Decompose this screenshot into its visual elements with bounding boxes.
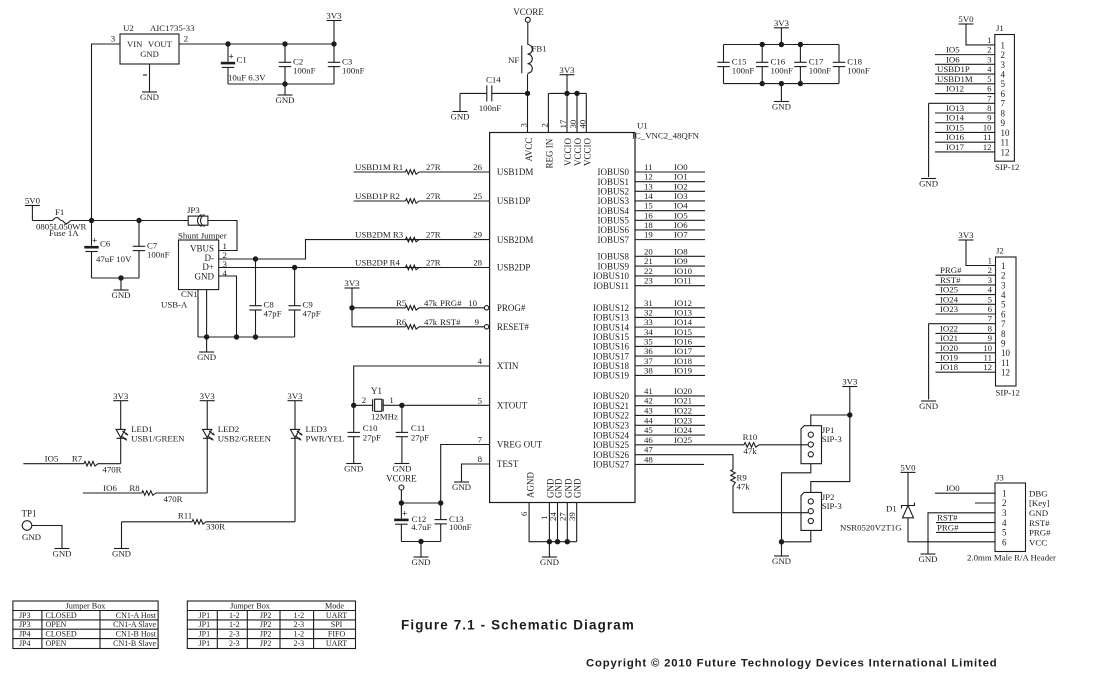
- node: [547, 539, 552, 544]
- svg-text:IOBUS22: IOBUS22: [593, 411, 629, 421]
- svg-text:100nF: 100nF: [479, 103, 502, 113]
- wire: [724, 83, 840, 85]
- wire J2 pin4: [936, 294, 996, 296]
- svg-text:IO4: IO4: [674, 201, 688, 211]
- svg-text:JP2: JP2: [260, 620, 272, 629]
- svg-text:IO20: IO20: [940, 343, 959, 353]
- USB connector CN1: [179, 240, 219, 290]
- svg-text:8: 8: [987, 103, 992, 113]
- wire VCCIO: [566, 93, 568, 132]
- resistor R8 470R / net IO6: [83, 492, 142, 494]
- svg-text:47k: 47k: [424, 298, 438, 308]
- svg-text:VCC: VCC: [1029, 537, 1047, 547]
- connector J3: [995, 483, 1026, 552]
- wire PRG#: [936, 531, 995, 533]
- svg-text:IOBUS8: IOBUS8: [597, 252, 629, 262]
- svg-text:SIP-3: SIP-3: [822, 434, 843, 444]
- svg-text:JP4: JP4: [19, 630, 31, 639]
- svg-text:45: 45: [644, 425, 653, 435]
- power 3V3: [288, 400, 303, 402]
- svg-text:IO19: IO19: [674, 365, 693, 375]
- svg-text:GND: GND: [197, 352, 216, 362]
- node: [351, 403, 356, 408]
- node: [253, 256, 258, 261]
- svg-text:GND: GND: [411, 557, 430, 567]
- svg-text:VOUT: VOUT: [148, 39, 173, 49]
- ground: [55, 548, 70, 550]
- svg-text:34: 34: [644, 327, 653, 337]
- svg-text:FB1: FB1: [532, 44, 547, 54]
- svg-text:OPEN: OPEN: [46, 620, 67, 629]
- svg-text:14: 14: [644, 191, 653, 201]
- wire J2 pin5: [936, 303, 996, 305]
- wire RST#: [936, 522, 995, 524]
- svg-text:6: 6: [1001, 309, 1006, 319]
- svg-text:JP2: JP2: [260, 639, 272, 648]
- svg-text:Copyright © 2010 Future Techno: Copyright © 2010 Future Technology Devic…: [586, 658, 998, 670]
- svg-text:PRG#: PRG#: [440, 298, 462, 308]
- wire: [219, 240, 490, 259]
- wire J2 pin2: [936, 274, 996, 276]
- voltage regulator U2 AIC1735-33: [120, 34, 179, 64]
- svg-text:19: 19: [644, 230, 653, 240]
- node: [418, 539, 423, 544]
- svg-text:2: 2: [1001, 50, 1006, 60]
- svg-text:JP4: JP4: [19, 639, 31, 648]
- capacitor C3: [333, 44, 335, 62]
- node: [525, 91, 530, 96]
- svg-text:2: 2: [362, 395, 366, 405]
- svg-text:USBD1M R1: USBD1M R1: [355, 162, 403, 172]
- wire VCCIO: [576, 93, 578, 132]
- svg-text:36: 36: [644, 346, 653, 356]
- svg-text:IO18: IO18: [674, 356, 693, 366]
- capacitor C9: [294, 268, 296, 306]
- svg-text:USB2DP R4: USB2DP R4: [355, 258, 400, 268]
- svg-text:IOBUS7: IOBUS7: [597, 235, 629, 245]
- wire J2 pin12: [936, 371, 996, 373]
- svg-text:IOBUS20: IOBUS20: [593, 391, 630, 401]
- capacitor C8: [255, 259, 257, 306]
- svg-text:R5: R5: [396, 298, 407, 308]
- svg-text:GND: GND: [140, 49, 159, 59]
- svg-text:RST#: RST#: [440, 317, 461, 327]
- svg-text:3V3: 3V3: [287, 391, 303, 401]
- wire: [782, 530, 811, 541]
- svg-text:5: 5: [987, 74, 992, 84]
- svg-text:IOBUS4: IOBUS4: [597, 206, 629, 216]
- resistor R10 47k: [744, 443, 759, 448]
- svg-text:10: 10: [1001, 348, 1011, 358]
- power 3V3: [774, 27, 789, 29]
- svg-text:27pF: 27pF: [411, 433, 429, 443]
- svg-text:11: 11: [984, 353, 992, 363]
- svg-text:AGND: AGND: [526, 472, 536, 498]
- svg-text:SIP-3: SIP-3: [822, 501, 843, 511]
- svg-text:27pF: 27pF: [363, 433, 381, 443]
- svg-text:12: 12: [983, 362, 992, 372]
- svg-text:USB2DP: USB2DP: [497, 263, 531, 273]
- svg-text:C1: C1: [237, 55, 247, 65]
- svg-text:3V3: 3V3: [842, 377, 858, 387]
- svg-text:IOBUS11: IOBUS11: [593, 281, 629, 291]
- svg-text:100nF: 100nF: [342, 66, 365, 76]
- svg-text:37: 37: [644, 356, 653, 366]
- svg-text:5: 5: [478, 395, 483, 405]
- svg-text:4: 4: [1001, 290, 1006, 300]
- svg-text:GND: GND: [140, 92, 159, 102]
- svg-text:IO12: IO12: [674, 298, 692, 308]
- svg-text:XTIN: XTIN: [497, 361, 519, 371]
- wire J2 pin10: [936, 352, 996, 354]
- svg-text:IOBUS14: IOBUS14: [593, 322, 630, 332]
- svg-text:100nF: 100nF: [847, 66, 870, 76]
- svg-text:44: 44: [644, 415, 653, 425]
- svg-text:IOBUS17: IOBUS17: [593, 351, 630, 361]
- svg-text:USB2DM: USB2DM: [497, 235, 534, 245]
- wire: [32, 526, 62, 549]
- svg-text:SIP-12: SIP-12: [995, 162, 1019, 172]
- svg-text:PRG#: PRG#: [937, 522, 959, 532]
- svg-text:7: 7: [1001, 319, 1006, 329]
- svg-text:PWR/YEL: PWR/YEL: [306, 434, 345, 444]
- svg-text:CN1-A Slave: CN1-A Slave: [113, 620, 156, 629]
- power 3V3: [560, 74, 575, 76]
- ground: [454, 481, 469, 483]
- capacitor C18 100nF: [838, 45, 840, 63]
- wire VREG OUT: [441, 445, 490, 504]
- svg-text:IO17: IO17: [674, 346, 693, 356]
- svg-text:NSR0520V2T1G: NSR0520V2T1G: [840, 523, 902, 533]
- svg-text:GND: GND: [344, 463, 363, 473]
- svg-text:R8: R8: [129, 483, 140, 493]
- svg-text:38: 38: [644, 365, 653, 375]
- svg-text:D1: D1: [886, 504, 897, 514]
- svg-text:5V0: 5V0: [958, 14, 974, 24]
- svg-text:RST#: RST#: [937, 513, 958, 523]
- wire J2 pin3: [936, 284, 996, 286]
- node: [779, 539, 784, 544]
- svg-text:CN1-A Host: CN1-A Host: [116, 611, 157, 620]
- svg-text:USBD1P R2: USBD1P R2: [355, 191, 400, 201]
- svg-text:IOBUS3: IOBUS3: [597, 196, 629, 206]
- svg-text:GND: GND: [392, 463, 411, 473]
- svg-text:NF: NF: [508, 55, 519, 65]
- svg-text:18: 18: [644, 220, 653, 230]
- svg-text:IO0: IO0: [946, 483, 960, 493]
- svg-text:IO16: IO16: [946, 132, 965, 142]
- wire: [206, 438, 208, 493]
- wire J1 pin3: [935, 63, 995, 65]
- capacitor C17 100nF: [799, 45, 801, 63]
- svg-text:USB1DM: USB1DM: [497, 167, 534, 177]
- svg-text:Shunt Jumper: Shunt Jumper: [178, 231, 227, 241]
- svg-text:3V3: 3V3: [958, 230, 974, 240]
- svg-text:25: 25: [473, 191, 482, 201]
- svg-text:9: 9: [1001, 339, 1006, 349]
- ground: [921, 400, 936, 402]
- svg-text:2.0mm Male R/A Header: 2.0mm Male R/A Header: [967, 553, 1056, 563]
- capacitor C14: [460, 92, 487, 94]
- wire: [928, 103, 930, 177]
- svg-text:LED3: LED3: [306, 424, 328, 434]
- svg-text:U1: U1: [637, 121, 648, 131]
- svg-text:RESET#: RESET#: [497, 322, 530, 332]
- svg-text:IO7: IO7: [674, 230, 688, 240]
- svg-text:1-2: 1-2: [229, 620, 240, 629]
- svg-text:12: 12: [983, 142, 992, 152]
- svg-text:IOBUS9: IOBUS9: [597, 261, 629, 271]
- svg-text:IOBUS16: IOBUS16: [593, 342, 630, 352]
- svg-text:CN1: CN1: [181, 289, 198, 299]
- svg-text:RST#: RST#: [1029, 518, 1050, 528]
- svg-text:4: 4: [988, 285, 993, 295]
- power 3V3: [113, 400, 128, 402]
- svg-text:JP1: JP1: [199, 620, 211, 629]
- svg-text:VCCIO: VCCIO: [563, 137, 573, 166]
- svg-text:IOBUS2: IOBUS2: [597, 187, 629, 197]
- svg-text:IO1: IO1: [674, 172, 688, 182]
- svg-text:1: 1: [988, 256, 992, 266]
- node: [204, 334, 209, 339]
- wire: [206, 290, 208, 337]
- svg-text:USB1DP: USB1DP: [497, 196, 531, 206]
- svg-text:GND: GND: [52, 548, 71, 558]
- wire: [908, 518, 995, 542]
- svg-text:6: 6: [1001, 89, 1006, 99]
- ground: [346, 463, 361, 465]
- svg-text:1: 1: [1001, 40, 1006, 50]
- svg-text:3V3: 3V3: [326, 11, 342, 21]
- svg-text:PROG#: PROG#: [497, 303, 526, 313]
- wire XTOUT: [402, 404, 490, 406]
- ground: [921, 553, 936, 555]
- wire: [198, 336, 295, 338]
- wire: [92, 44, 121, 221]
- wire: [219, 267, 490, 269]
- svg-text:D+: D+: [202, 262, 214, 272]
- fuse F1: [32, 220, 52, 222]
- svg-text:47uF 10V: 47uF 10V: [96, 254, 132, 264]
- wire: [92, 277, 140, 279]
- wire GND pin 39: [576, 503, 578, 542]
- svg-text:4: 4: [478, 356, 483, 366]
- wire J1 pin11: [935, 141, 995, 143]
- svg-text:100nF: 100nF: [449, 522, 472, 532]
- svg-text:IOBUS1: IOBUS1: [597, 177, 629, 187]
- svg-text:USB2/GREEN: USB2/GREEN: [218, 434, 272, 444]
- svg-text:5: 5: [988, 294, 993, 304]
- ground: [114, 548, 129, 550]
- svg-text:41: 41: [644, 386, 653, 396]
- svg-text:FIFO: FIFO: [328, 630, 346, 639]
- svg-text:2-3: 2-3: [293, 639, 304, 648]
- svg-text:IOBUS10: IOBUS10: [593, 271, 630, 281]
- node: [760, 42, 765, 47]
- capacitor C16 100nF: [761, 45, 763, 63]
- svg-text:GND: GND: [772, 556, 791, 566]
- svg-text:JP3: JP3: [19, 620, 31, 629]
- svg-text:4.7uF: 4.7uF: [411, 522, 431, 532]
- wire J2 pin7 GND: [929, 323, 996, 325]
- wire IO0: [935, 492, 995, 494]
- svg-text:21: 21: [644, 256, 653, 266]
- svg-text:33: 33: [644, 317, 653, 327]
- svg-text:R10: R10: [743, 432, 758, 442]
- svg-text:CLOSED: CLOSED: [46, 611, 77, 620]
- wire AGND: [529, 503, 577, 542]
- svg-text:IO14: IO14: [674, 317, 693, 327]
- svg-text:VIN: VIN: [127, 39, 143, 49]
- svg-text:VBUS: VBUS: [190, 244, 214, 254]
- svg-text:6: 6: [988, 304, 993, 314]
- capacitor C12 4.7uF: [400, 503, 402, 518]
- svg-text:3V3: 3V3: [559, 65, 575, 75]
- svg-text:8: 8: [988, 323, 993, 333]
- svg-text:IO19: IO19: [940, 353, 959, 363]
- svg-text:IO9: IO9: [674, 256, 688, 266]
- resistor R7 470R / net IO5: [23, 463, 84, 465]
- svg-text:27R: 27R: [426, 230, 441, 240]
- svg-text:CN1-B Host: CN1-B Host: [116, 630, 157, 639]
- svg-text:IO0: IO0: [674, 162, 688, 172]
- svg-text:12MHz: 12MHz: [371, 412, 398, 422]
- svg-text:11: 11: [1001, 138, 1010, 148]
- svg-text:42: 42: [644, 396, 653, 406]
- svg-text:Figure 7.1 - Schematic Diagram: Figure 7.1 - Schematic Diagram: [401, 618, 635, 633]
- svg-text:J3: J3: [996, 473, 1004, 483]
- ground: [142, 91, 157, 93]
- svg-text:2-3: 2-3: [293, 620, 304, 629]
- power 5V0: [25, 205, 40, 207]
- svg-text:J2: J2: [996, 246, 1004, 256]
- svg-text:IOBUS18: IOBUS18: [593, 361, 630, 371]
- svg-text:23: 23: [644, 276, 653, 286]
- svg-text:IO20: IO20: [674, 386, 693, 396]
- svg-text:3: 3: [1002, 508, 1007, 518]
- connector J2 SIP-12: [996, 257, 1017, 386]
- svg-text:USB2DM R3: USB2DM R3: [355, 230, 404, 240]
- svg-text:JP1: JP1: [199, 630, 211, 639]
- svg-text:IO13: IO13: [946, 103, 965, 113]
- diode D1 NSR0520V2T1G: [902, 503, 915, 509]
- svg-text:1-2: 1-2: [293, 630, 304, 639]
- svg-text:1-2: 1-2: [293, 611, 304, 620]
- svg-text:10: 10: [983, 122, 992, 132]
- resistor R6 47k: [352, 326, 406, 328]
- svg-text:IO6: IO6: [946, 54, 960, 64]
- power 3V3: [842, 386, 857, 388]
- svg-text:F1: F1: [55, 207, 64, 217]
- wire J2 pin11: [936, 362, 996, 364]
- svg-text:Jumper Box: Jumper Box: [66, 601, 106, 610]
- svg-text:32: 32: [644, 307, 653, 317]
- capacitor C2: [284, 44, 286, 62]
- power 3V3: [959, 239, 974, 241]
- svg-text:SIP-12: SIP-12: [996, 388, 1020, 398]
- svg-text:IO23: IO23: [674, 415, 693, 425]
- svg-text:2: 2: [1001, 271, 1006, 281]
- svg-text:IOBUS25: IOBUS25: [593, 440, 630, 450]
- svg-text:39: 39: [567, 512, 577, 521]
- svg-text:USB-A: USB-A: [161, 300, 188, 310]
- svg-text:IO17: IO17: [946, 142, 965, 152]
- svg-text:3: 3: [111, 34, 116, 44]
- svg-text:Fuse 1A: Fuse 1A: [49, 228, 79, 238]
- svg-text:1: 1: [1001, 261, 1006, 271]
- wire: [208, 221, 237, 251]
- svg-text:IOBUS5: IOBUS5: [597, 216, 629, 226]
- svg-text:7: 7: [988, 314, 993, 324]
- svg-text:3: 3: [988, 275, 993, 285]
- svg-text:10uF 6.3V: 10uF 6.3V: [228, 73, 266, 83]
- svg-text:48: 48: [644, 454, 653, 464]
- svg-text:AIC1735-33: AIC1735-33: [150, 23, 195, 33]
- ground: [394, 463, 409, 465]
- wire J1 pin9: [935, 122, 995, 124]
- svg-text:R6: R6: [396, 317, 407, 327]
- svg-text:GND: GND: [918, 554, 937, 564]
- svg-text:3V3: 3V3: [200, 391, 216, 401]
- wire J1 pin6: [935, 93, 995, 95]
- wire: [294, 438, 296, 522]
- wire: [400, 490, 402, 503]
- resistor R9 47k: [731, 470, 736, 487]
- node: [331, 41, 336, 46]
- ground: [548, 542, 550, 557]
- power 5V0: [901, 471, 916, 473]
- svg-text:IO21: IO21: [674, 396, 692, 406]
- svg-text:8: 8: [1001, 108, 1006, 118]
- svg-text:GND: GND: [540, 557, 559, 567]
- svg-text:22: 22: [644, 266, 653, 276]
- svg-text:VCCIO: VCCIO: [582, 137, 592, 166]
- svg-text:35: 35: [644, 336, 653, 346]
- svg-text:28: 28: [473, 258, 482, 268]
- svg-text:2: 2: [1002, 498, 1007, 508]
- svg-text:10: 10: [1001, 128, 1011, 138]
- svg-text:IO22: IO22: [674, 405, 692, 415]
- svg-text:9: 9: [475, 317, 480, 327]
- svg-text:1: 1: [1002, 488, 1007, 498]
- svg-text:GND: GND: [1029, 508, 1048, 518]
- wire: [401, 502, 440, 504]
- svg-text:5: 5: [1001, 300, 1006, 310]
- node: [399, 403, 404, 408]
- svg-text:CLOSED: CLOSED: [46, 630, 77, 639]
- svg-text:11: 11: [983, 132, 991, 142]
- svg-text:JP3: JP3: [19, 611, 31, 620]
- jumper JP2 SIP-3: [801, 492, 822, 530]
- svg-text:IO24: IO24: [674, 425, 693, 435]
- svg-text:GND: GND: [450, 111, 469, 121]
- ground: [120, 278, 122, 290]
- wire J1 pin7 GND: [929, 102, 995, 104]
- ground: [206, 337, 208, 352]
- wire: [120, 438, 122, 463]
- svg-text:2-3: 2-3: [229, 639, 240, 648]
- svg-text:UART: UART: [326, 639, 347, 648]
- svg-text:PRG#: PRG#: [1029, 528, 1051, 538]
- svg-text:DBG: DBG: [1029, 488, 1048, 498]
- svg-text:47k: 47k: [424, 317, 438, 327]
- resistor R5 47k: [352, 307, 406, 309]
- svg-text:2: 2: [987, 45, 991, 55]
- svg-text:6: 6: [987, 84, 992, 94]
- svg-text:IO18: IO18: [940, 362, 959, 372]
- svg-text:470R: 470R: [102, 465, 121, 475]
- node: [136, 218, 141, 223]
